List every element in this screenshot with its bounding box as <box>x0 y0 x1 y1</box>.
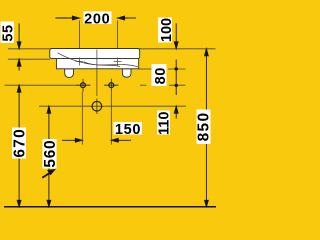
svg-text:200: 200 <box>84 12 110 28</box>
svg-text:80: 80 <box>153 67 169 84</box>
svg-text:150: 150 <box>115 122 141 138</box>
svg-text:560: 560 <box>42 140 59 168</box>
svg-text:55: 55 <box>1 24 17 41</box>
svg-text:110: 110 <box>156 112 172 135</box>
svg-text:100: 100 <box>159 18 175 42</box>
svg-text:670: 670 <box>11 128 28 158</box>
svg-text:850: 850 <box>196 112 213 142</box>
